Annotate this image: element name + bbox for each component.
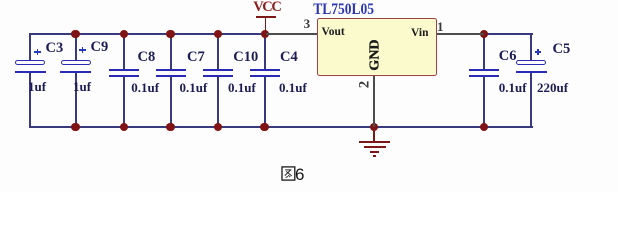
pin 2 (GND) lead [373, 76, 375, 127]
label C10 [233, 50, 258, 65]
junction GND pin bottom [370, 123, 378, 131]
junction C10 top [214, 30, 222, 38]
pin number 3 [304, 17, 311, 30]
value 0.1uf (C4) [279, 81, 307, 94]
wire C8 top lead [123, 33, 125, 69]
junction C6 bottom [480, 123, 488, 131]
value 220uf (C5) [537, 81, 568, 94]
capacitor C10 (plates) [203, 69, 233, 71]
polarity plus sign (C9) [79, 49, 86, 51]
capacitor C5 (polarized plates) [516, 60, 546, 65]
junction C9 bottom [71, 123, 79, 131]
junction C9 top [71, 30, 79, 38]
pin name GND (rotated) [369, 39, 383, 70]
junction C8 top [120, 30, 128, 38]
value 0.1uf (C6) [499, 81, 527, 94]
value 0.1uf (C8) [131, 81, 159, 94]
capacitor C6 (plates) [469, 69, 499, 71]
power port VCC stem [265, 18, 267, 31]
wire C6 top lead [483, 33, 485, 69]
wire C9 bottom lead [75, 73, 77, 128]
junction C8 bottom [120, 123, 128, 131]
value 0.1uf (C7) [180, 81, 208, 94]
pin name Vout [322, 27, 345, 39]
value 1uf (C3) [28, 80, 46, 93]
caption figure glyph (tu) [281, 166, 297, 182]
label C3 [46, 41, 64, 56]
caption number 6 [295, 166, 304, 183]
power port VCC label [253, 0, 280, 15]
capacitor C7 (plates) [156, 69, 186, 71]
label C7 [187, 50, 205, 65]
capacitor C8 (plates) [109, 69, 139, 71]
capacitor C9 (polarized plates) [61, 60, 91, 65]
value 0.1uf (C10) [228, 81, 256, 94]
ground symbol bar 4 [373, 155, 377, 157]
pin 1 (Vin) lead [437, 33, 484, 35]
wire top bus (VCC net, C3..C4) [29, 33, 266, 35]
wire C10 bottom lead [217, 77, 219, 128]
junction C7 top [166, 30, 174, 38]
wire C9 top lead [75, 33, 77, 61]
ground symbol bar 2 [364, 146, 386, 148]
label TL750L05 [313, 1, 374, 17]
wire top right segment (Vin net, C6 to C5) [484, 33, 533, 35]
ground symbol bar 1 [359, 141, 390, 143]
wire C4 top lead [264, 33, 266, 69]
junction C7 bottom [166, 123, 174, 131]
wire C3 top lead [29, 33, 31, 62]
junction VCC / C4 top [261, 30, 269, 38]
ground symbol stem [373, 128, 375, 142]
wire C5 bottom lead [530, 73, 532, 128]
label C9 [91, 40, 109, 55]
pin number 2 (rotated) [357, 81, 372, 89]
wire C3 bottom lead [29, 73, 31, 128]
pin name Vin [411, 28, 428, 40]
label C5 [553, 42, 571, 57]
polarity plus sign (C3) [34, 51, 41, 53]
wire C10 top lead [217, 33, 219, 69]
label C8 [138, 50, 156, 65]
label C4 [280, 50, 298, 65]
value 1uf (C9) [73, 80, 91, 93]
label C6 [499, 49, 517, 64]
wire C5 top lead [530, 33, 532, 62]
polarity plus sign (C5) [535, 51, 542, 53]
junction C6 top [480, 30, 488, 38]
pin number 1 [437, 20, 444, 33]
power port VCC bar [256, 16, 277, 18]
capacitor C3 (polarized plates) [15, 60, 45, 65]
capacitor C4 (plates) [250, 69, 280, 71]
wire C8 bottom lead [123, 77, 125, 128]
wire bottom bus (ground net) [29, 126, 533, 128]
wire C4 bottom lead [264, 77, 266, 128]
wire C6 bottom lead [483, 77, 485, 128]
junction C4 bottom [260, 123, 268, 131]
junction C10 bottom [214, 123, 222, 131]
pin 3 (Vout) lead [266, 33, 317, 35]
wire C7 bottom lead [170, 77, 172, 128]
wire C7 top lead [170, 33, 172, 69]
ground symbol bar 3 [370, 151, 380, 153]
regulator U1 TL750L05 body [317, 18, 437, 75]
